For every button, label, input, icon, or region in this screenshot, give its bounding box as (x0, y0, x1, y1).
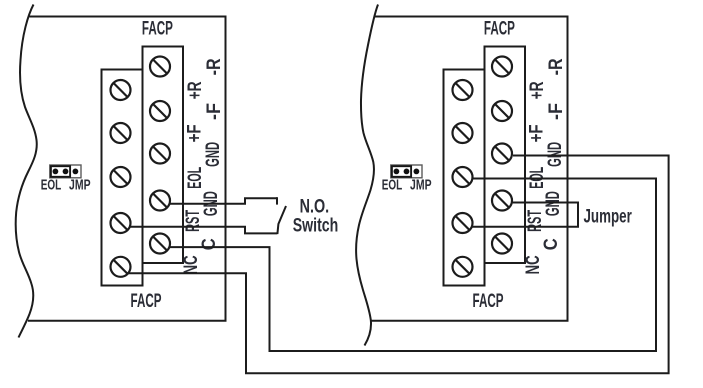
svg-text:-R: -R (204, 58, 225, 75)
TB2 screw terminal -R (492, 57, 512, 77)
wire: TB1 C to TB2 EOL (via bottom bus) (169, 179, 656, 352)
svg-text:JMP: JMP (69, 178, 91, 194)
terminal block TB2 inner row (485, 47, 526, 264)
wire: TB1 RST to switch moving contact (130, 227, 277, 234)
FACP panel 1 torn left edge (16, 5, 37, 338)
TB2 screw terminal GND (492, 144, 512, 164)
TB1 screw terminal +R (111, 80, 131, 100)
TB1 screw terminal NC (111, 257, 131, 277)
TB1 screw terminal GND (150, 144, 170, 164)
TB1 screw terminal -F (150, 101, 170, 121)
terminal block TB1 outer row (102, 70, 143, 286)
wire: TB1 GND to switch fixed contact (169, 198, 277, 204)
TB2 screw terminal +F (453, 123, 473, 143)
svg-text:C: C (199, 238, 220, 250)
TB1 screw terminal GND (150, 191, 170, 211)
TB1 screw terminal -R (150, 57, 170, 77)
TB1 screw terminal +F (111, 123, 131, 143)
svg-text:GND: GND (545, 142, 566, 167)
TB2 screw terminal -F (492, 101, 512, 121)
svg-text:EOL: EOL (382, 178, 403, 194)
svg-text:FACP: FACP (484, 18, 515, 39)
TB2 screw terminal RST (453, 213, 473, 233)
svg-text:RST: RST (183, 210, 204, 232)
TB2 screw terminal C (492, 234, 512, 254)
svg-text:-F: -F (546, 103, 567, 120)
wire: TB1 NC to TB2 GND (via bottom bus) (129, 156, 669, 374)
svg-text:Switch: Switch (293, 215, 339, 237)
svg-text:NC: NC (181, 255, 202, 274)
jumper header J2 (EOL/JMP) (391, 165, 422, 178)
svg-text:NC: NC (523, 255, 544, 274)
jumper header J1 (EOL/JMP) (50, 165, 81, 178)
svg-text:+F: +F (527, 124, 548, 142)
svg-text:Jumper: Jumper (584, 206, 633, 227)
svg-text:-R: -R (546, 58, 567, 75)
TB2 screw terminal GND (492, 191, 512, 211)
terminal block TB2 outer row (444, 70, 485, 286)
svg-text:RST: RST (525, 210, 546, 232)
FACP panel 2 torn left edge (356, 5, 378, 346)
FACP panel 1 enclosure outline (28, 17, 226, 321)
svg-text:JMP: JMP (410, 178, 432, 194)
TB2 screw terminal +R (453, 80, 473, 100)
terminal block TB1 inner row (143, 47, 184, 264)
svg-text:C: C (541, 238, 562, 250)
TB1 screw terminal EOL (111, 167, 131, 187)
N.O. switch S1 fixed contact tick (276, 197, 278, 204)
TB1 screw terminal RST (111, 213, 131, 233)
jumper wire: TB2 GND to TB2 RST (473, 203, 579, 227)
svg-text:GND: GND (543, 191, 564, 216)
svg-text:GND: GND (203, 142, 224, 167)
N.O. switch S1 blade (open) (277, 206, 286, 234)
TB2 screw terminal EOL (453, 167, 473, 187)
svg-text:+F: +F (185, 124, 206, 142)
svg-text:FACP: FACP (131, 291, 162, 312)
TB2 screw terminal NC (453, 257, 473, 277)
svg-text:FACP: FACP (473, 291, 504, 312)
svg-text:EOL: EOL (41, 178, 62, 194)
FACP panel 2 enclosure outline (370, 17, 568, 321)
svg-text:+R: +R (185, 81, 206, 99)
svg-text:-F: -F (204, 103, 225, 120)
svg-text:+R: +R (527, 81, 548, 99)
TB1 screw terminal C (150, 234, 170, 254)
svg-text:EOL: EOL (185, 167, 206, 189)
svg-text:FACP: FACP (142, 18, 173, 39)
